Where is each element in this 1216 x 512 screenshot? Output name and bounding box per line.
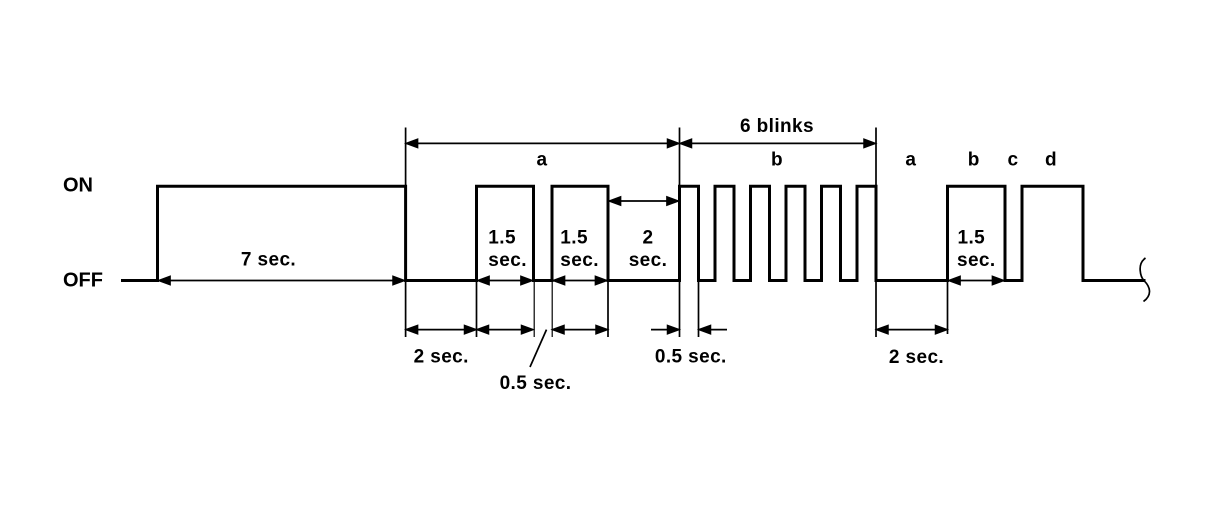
svg-text:2 sec.: 2 sec. <box>889 347 944 368</box>
svg-text:6 blinks: 6 blinks <box>740 116 814 137</box>
svg-text:1.5: 1.5 <box>488 228 516 249</box>
svg-text:0.5 sec.: 0.5 sec. <box>500 373 572 394</box>
svg-text:sec.: sec. <box>629 250 668 271</box>
svg-text:7 sec.: 7 sec. <box>241 250 296 271</box>
svg-text:2 sec.: 2 sec. <box>414 347 469 368</box>
svg-text:d: d <box>1045 150 1057 171</box>
svg-text:c: c <box>1008 150 1019 171</box>
svg-text:1.5: 1.5 <box>560 228 588 249</box>
svg-text:sec.: sec. <box>560 250 599 271</box>
svg-text:OFF: OFF <box>63 270 103 292</box>
svg-text:ON: ON <box>63 174 93 196</box>
svg-text:a: a <box>537 150 548 171</box>
svg-text:a: a <box>905 150 916 171</box>
svg-text:sec.: sec. <box>488 250 527 271</box>
svg-text:b: b <box>968 150 980 171</box>
svg-text:1.5: 1.5 <box>958 228 986 249</box>
svg-text:0.5 sec.: 0.5 sec. <box>655 347 727 368</box>
svg-text:b: b <box>771 150 783 171</box>
svg-text:2: 2 <box>643 228 654 249</box>
svg-text:sec.: sec. <box>957 250 996 271</box>
